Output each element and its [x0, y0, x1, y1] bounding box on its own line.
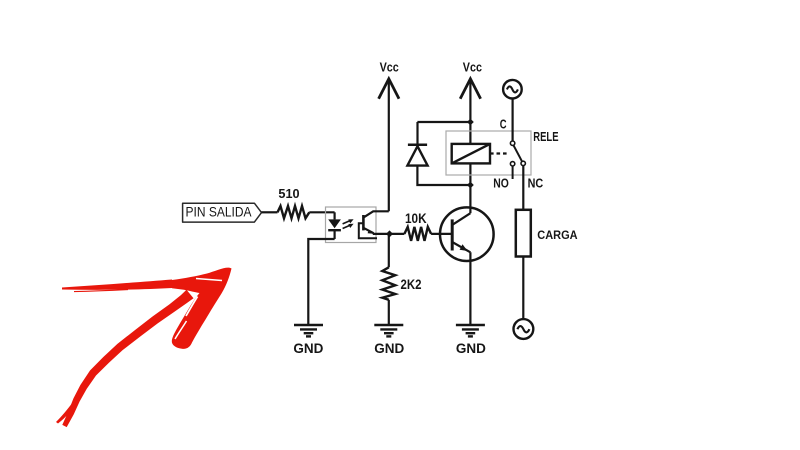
relay common contact C	[500, 116, 515, 145]
svg-text:10K: 10K	[405, 211, 427, 226]
AC source V2	[514, 319, 534, 339]
svg-text:GND: GND	[293, 341, 323, 356]
red arrow tail thin lower stroke	[56, 402, 73, 424]
wire R1 to optocoupler LED	[309, 211, 334, 213]
wire CARGA down to AC source V2	[522, 257, 524, 320]
net flag PIN SALIDA	[183, 203, 262, 222]
wire Q1 collector up to node C	[469, 185, 471, 213]
svg-text:Vcc: Vcc	[463, 60, 482, 75]
svg-text:510: 510	[278, 187, 299, 201]
svg-text:C: C	[500, 116, 507, 131]
red arrow highlight slivers	[186, 297, 198, 317]
relay K1 package box	[446, 131, 531, 175]
wire flag to R1	[262, 211, 278, 213]
svg-text:CARGA: CARGA	[537, 230, 577, 242]
svg-text:PIN SALIDA: PIN SALIDA	[186, 204, 253, 220]
red annotation arrow	[56, 268, 232, 427]
diode D1	[407, 122, 427, 166]
svg-text:RELE: RELE	[533, 130, 558, 144]
transistor Q1	[440, 207, 494, 261]
relay contact NO	[493, 162, 515, 191]
wire node B down through coil to node C	[469, 122, 471, 185]
wire node C to diode bottom	[417, 166, 470, 185]
svg-text:GND: GND	[456, 341, 486, 356]
svg-text:Vcc: Vcc	[380, 60, 399, 75]
optocoupler U1 package box	[326, 207, 377, 243]
svg-text:2K2: 2K2	[401, 277, 422, 292]
relay coil	[452, 144, 490, 164]
relay lever arm	[514, 145, 522, 161]
resistor R2 10K	[404, 211, 431, 241]
wire R2 to Q1 base	[431, 233, 452, 235]
node C junction	[467, 182, 474, 189]
wire Q1 emitter to GND3	[469, 252, 471, 324]
wire U1 collector up to Vcc1	[388, 81, 390, 212]
wire node A down to R3	[388, 234, 390, 267]
resistor R3 2K2	[382, 267, 421, 300]
resistor R1 510	[278, 187, 310, 218]
wire diode top to node B	[417, 121, 470, 123]
ground GND3	[456, 325, 486, 356]
svg-text:NC: NC	[528, 175, 544, 190]
power Vcc1	[379, 60, 399, 99]
red arrow curved tail	[62, 290, 193, 427]
wire U1 cathode to GND1	[308, 239, 334, 325]
ground GND2	[374, 325, 404, 356]
svg-text:GND: GND	[374, 341, 404, 356]
phototransistor of U1	[359, 211, 389, 238]
red arrow head	[172, 268, 232, 349]
ground GND1	[293, 325, 323, 356]
red arrow top stroke	[62, 280, 172, 290]
LED of U1	[328, 212, 341, 239]
wire R3 to GND2	[388, 300, 390, 325]
node B junction	[467, 119, 474, 126]
relay contact NC	[521, 161, 544, 190]
light arrows	[343, 219, 354, 228]
svg-text:NO: NO	[493, 175, 509, 190]
AC source V1	[503, 80, 522, 99]
red arrow hairline under top stroke	[74, 290, 128, 292]
power Vcc2	[460, 60, 482, 99]
wire AC1 down to contact C	[511, 98, 513, 141]
node A junction	[386, 230, 393, 237]
wire node B up to Vcc2	[469, 81, 471, 123]
relay actuator dashed link	[490, 152, 510, 154]
wire U1 emitter to node A to R2	[373, 233, 405, 235]
load CARGA	[516, 210, 578, 257]
wire NC down to CARGA	[522, 166, 524, 210]
